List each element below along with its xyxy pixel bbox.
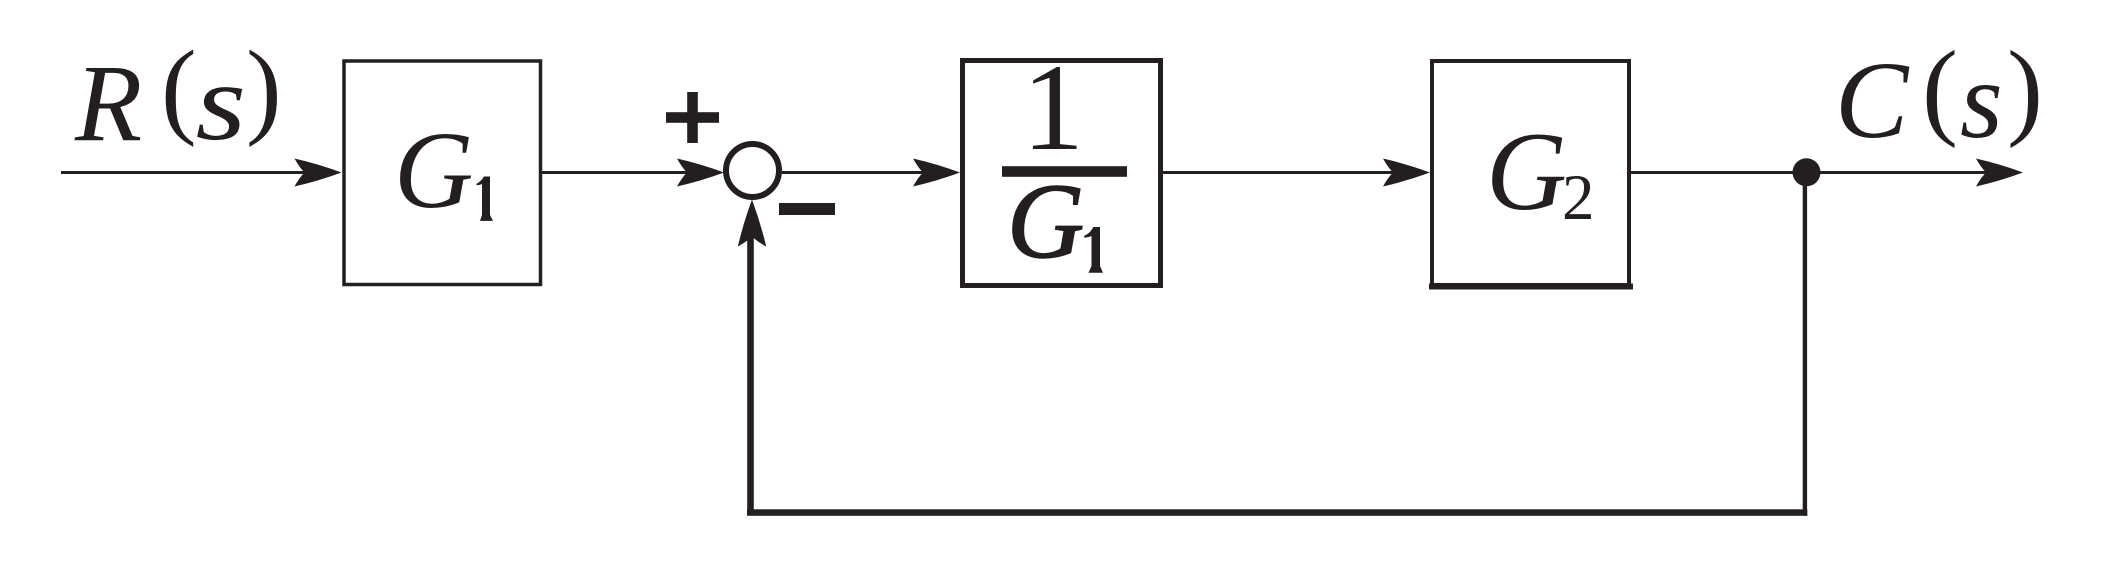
wire feedback bottom horizontal <box>747 509 1807 516</box>
label G2 <box>1486 110 1595 234</box>
arrowhead G1-sum <box>677 159 724 187</box>
summing junction <box>726 144 779 197</box>
wire invG1-G2 <box>1163 171 1405 174</box>
svg-text:G: G <box>394 109 473 231</box>
wire node-output <box>1806 171 2000 174</box>
wire G2-node <box>1631 171 1806 174</box>
svg-text:(: ( <box>161 30 197 148</box>
svg-text:R: R <box>74 42 142 164</box>
svg-text:C: C <box>1835 39 1910 161</box>
wire G1-sum <box>542 171 700 174</box>
svg-text:G: G <box>1486 110 1567 234</box>
arrowhead input <box>295 159 342 187</box>
svg-text:): ) <box>246 30 282 148</box>
label 1/G1 fraction bar <box>1002 166 1127 177</box>
arrowhead output <box>1976 159 2023 187</box>
svg-text:s: s <box>196 42 247 164</box>
wire input <box>61 171 315 174</box>
label R(s) <box>74 30 282 164</box>
minus sign <box>779 203 835 215</box>
block G2 <box>1432 61 1629 285</box>
wire feedback right vertical <box>1803 172 1807 516</box>
svg-text:(: ( <box>1922 30 1958 149</box>
label G1 <box>394 109 493 231</box>
arrowhead invG1-G2 <box>1383 159 1430 187</box>
block 1/G1 <box>963 61 1161 286</box>
svg-text:): ) <box>2007 30 2043 149</box>
arrowhead feedback up <box>738 200 766 247</box>
svg-text:s: s <box>1960 39 2003 161</box>
block G2 bottom thick edge <box>1429 284 1633 290</box>
svg-text:1: 1 <box>1022 39 1084 176</box>
svg-text:2: 2 <box>1562 162 1595 234</box>
wire feedback left vertical <box>747 235 754 512</box>
label 1/G1 denominator sub 1 <box>1084 227 1103 273</box>
wire sum-invG1 <box>782 171 935 174</box>
block G1 <box>344 61 541 285</box>
plus sign <box>666 92 719 143</box>
arrowhead sum-invG1 <box>913 159 960 187</box>
node pickoff dot <box>1793 158 1821 186</box>
label C(s) <box>1835 30 2043 161</box>
svg-text:G: G <box>1007 163 1084 281</box>
